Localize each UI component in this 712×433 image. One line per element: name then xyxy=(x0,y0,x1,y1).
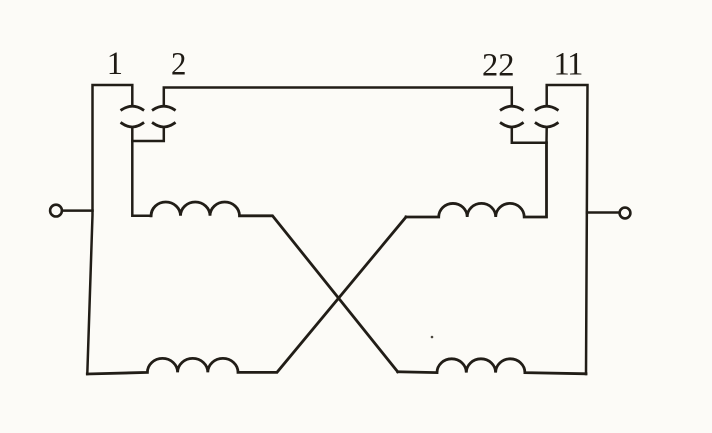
svg-text:11: 11 xyxy=(554,47,583,83)
svg-text:2: 2 xyxy=(171,47,186,83)
svg-text:1: 1 xyxy=(107,46,123,82)
svg-text:22: 22 xyxy=(482,48,515,84)
